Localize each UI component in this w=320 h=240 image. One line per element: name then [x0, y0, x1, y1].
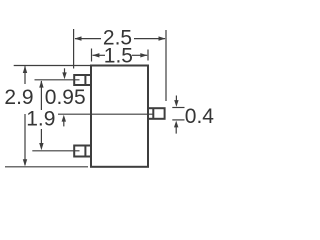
- dim 0.95 upper outside arrow tail: [64, 68, 66, 74]
- dim 0.4 upper outside arrowhead: [174, 100, 178, 107]
- svg-text:0.4: 0.4: [185, 105, 215, 128]
- dim 2.5 left arrowhead: [74, 36, 81, 40]
- dim 2.9 top arrowhead: [23, 66, 27, 73]
- pin 1 (top-left lead): [74, 75, 91, 85]
- svg-text:2.9: 2.9: [4, 86, 33, 109]
- pin 3 tip division line: [152, 108, 154, 119]
- package body outline: [91, 66, 148, 167]
- dim 1.5 dimension line left: [93, 54, 106, 56]
- pin 2 centerline: [32, 150, 79, 152]
- pin 2 tip division line: [84, 146, 86, 157]
- dim 1.9 dimension line upper: [40, 81, 42, 110]
- dim 2.9 bottom extension line: [5, 166, 88, 168]
- dim 2.5 dimension line left: [75, 38, 101, 40]
- pin 1 centerline: [35, 79, 80, 81]
- svg-text:0.95: 0.95: [45, 86, 86, 109]
- dim 1.9 dimension line lower: [40, 129, 42, 148]
- dim 1.5 left tick: [91, 49, 93, 62]
- dim 0.95 lower outside arrowhead: [62, 115, 66, 122]
- dim 2.9 dimension line upper: [24, 66, 26, 84]
- dim 1.5 right arrowhead: [140, 53, 147, 57]
- dim 0.4 lower outside arrow tail: [175, 126, 177, 134]
- dim 0.4 lower outside arrowhead: [174, 121, 178, 128]
- dim 0.95 lower outside arrow tail: [63, 120, 65, 126]
- dim 2.9 dimension line lower: [24, 114, 26, 165]
- dim 0.95 upper outside arrowhead: [62, 72, 66, 79]
- dim 1.9 top arrowhead: [39, 80, 43, 87]
- dim 2.9 bottom arrowhead: [23, 159, 27, 166]
- dim 1.5 right tick: [147, 50, 149, 61]
- pin 2 (bottom-left lead): [74, 146, 91, 157]
- svg-text:1.9: 1.9: [26, 107, 55, 130]
- pin 3 / body centerline: [58, 113, 153, 115]
- pin 1 tip division line: [84, 75, 86, 85]
- dim 2.9 top extension line: [14, 65, 91, 67]
- pin 3 (right lead): [148, 108, 165, 119]
- dim 2.5 right arrowhead: [159, 36, 166, 40]
- dim 1.5 left arrowhead: [92, 53, 99, 57]
- dim 0.4 upper outside arrow tail: [175, 96, 177, 102]
- dim 0.4 bottom extension line: [172, 119, 184, 121]
- dim 1.5 dimension line right: [132, 54, 147, 56]
- dim 0.4 top extension line: [172, 107, 184, 109]
- dim 2.5 dimension line right: [134, 38, 165, 40]
- dim 1.9 bottom arrowhead: [39, 143, 43, 150]
- dim 2.5 right extension line: [165, 30, 167, 101]
- dim 2.5 left extension line: [73, 29, 75, 69]
- svg-text:1.5: 1.5: [104, 44, 133, 67]
